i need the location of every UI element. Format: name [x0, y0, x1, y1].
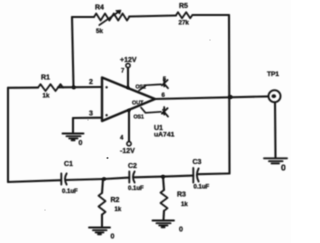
- svg-text:27k: 27k: [179, 20, 190, 27]
- svg-text:0: 0: [79, 140, 83, 147]
- svg-text:3: 3: [89, 111, 93, 118]
- svg-text:1k: 1k: [43, 93, 50, 100]
- svg-text:0: 0: [111, 234, 115, 241]
- svg-text:R4: R4: [95, 5, 104, 12]
- svg-text:0: 0: [179, 227, 183, 234]
- svg-text:TP1: TP1: [267, 71, 279, 78]
- svg-text:OS1: OS1: [134, 115, 144, 121]
- svg-text:R1: R1: [41, 75, 50, 82]
- svg-text:R3: R3: [177, 192, 186, 199]
- svg-text:R2: R2: [111, 197, 120, 204]
- svg-text:0.1uF: 0.1uF: [194, 185, 210, 191]
- svg-text:OUT: OUT: [132, 101, 144, 107]
- svg-text:+12V: +12V: [120, 57, 137, 64]
- svg-text:R5: R5: [179, 3, 188, 10]
- svg-text:1k: 1k: [115, 207, 122, 213]
- svg-text:5k: 5k: [96, 28, 103, 35]
- svg-text:C3: C3: [193, 159, 202, 166]
- svg-text:2: 2: [89, 79, 93, 86]
- svg-text:C2: C2: [128, 163, 137, 170]
- svg-text:uA741: uA741: [154, 132, 175, 139]
- svg-text:0: 0: [281, 163, 286, 173]
- svg-text:0.1uF: 0.1uF: [128, 186, 144, 192]
- svg-text:C1: C1: [64, 161, 73, 168]
- svg-text:-12V: -12V: [120, 148, 135, 155]
- svg-text:OS2: OS2: [136, 85, 146, 91]
- svg-text:0.1uF: 0.1uF: [62, 189, 78, 195]
- svg-text:1k: 1k: [181, 202, 188, 208]
